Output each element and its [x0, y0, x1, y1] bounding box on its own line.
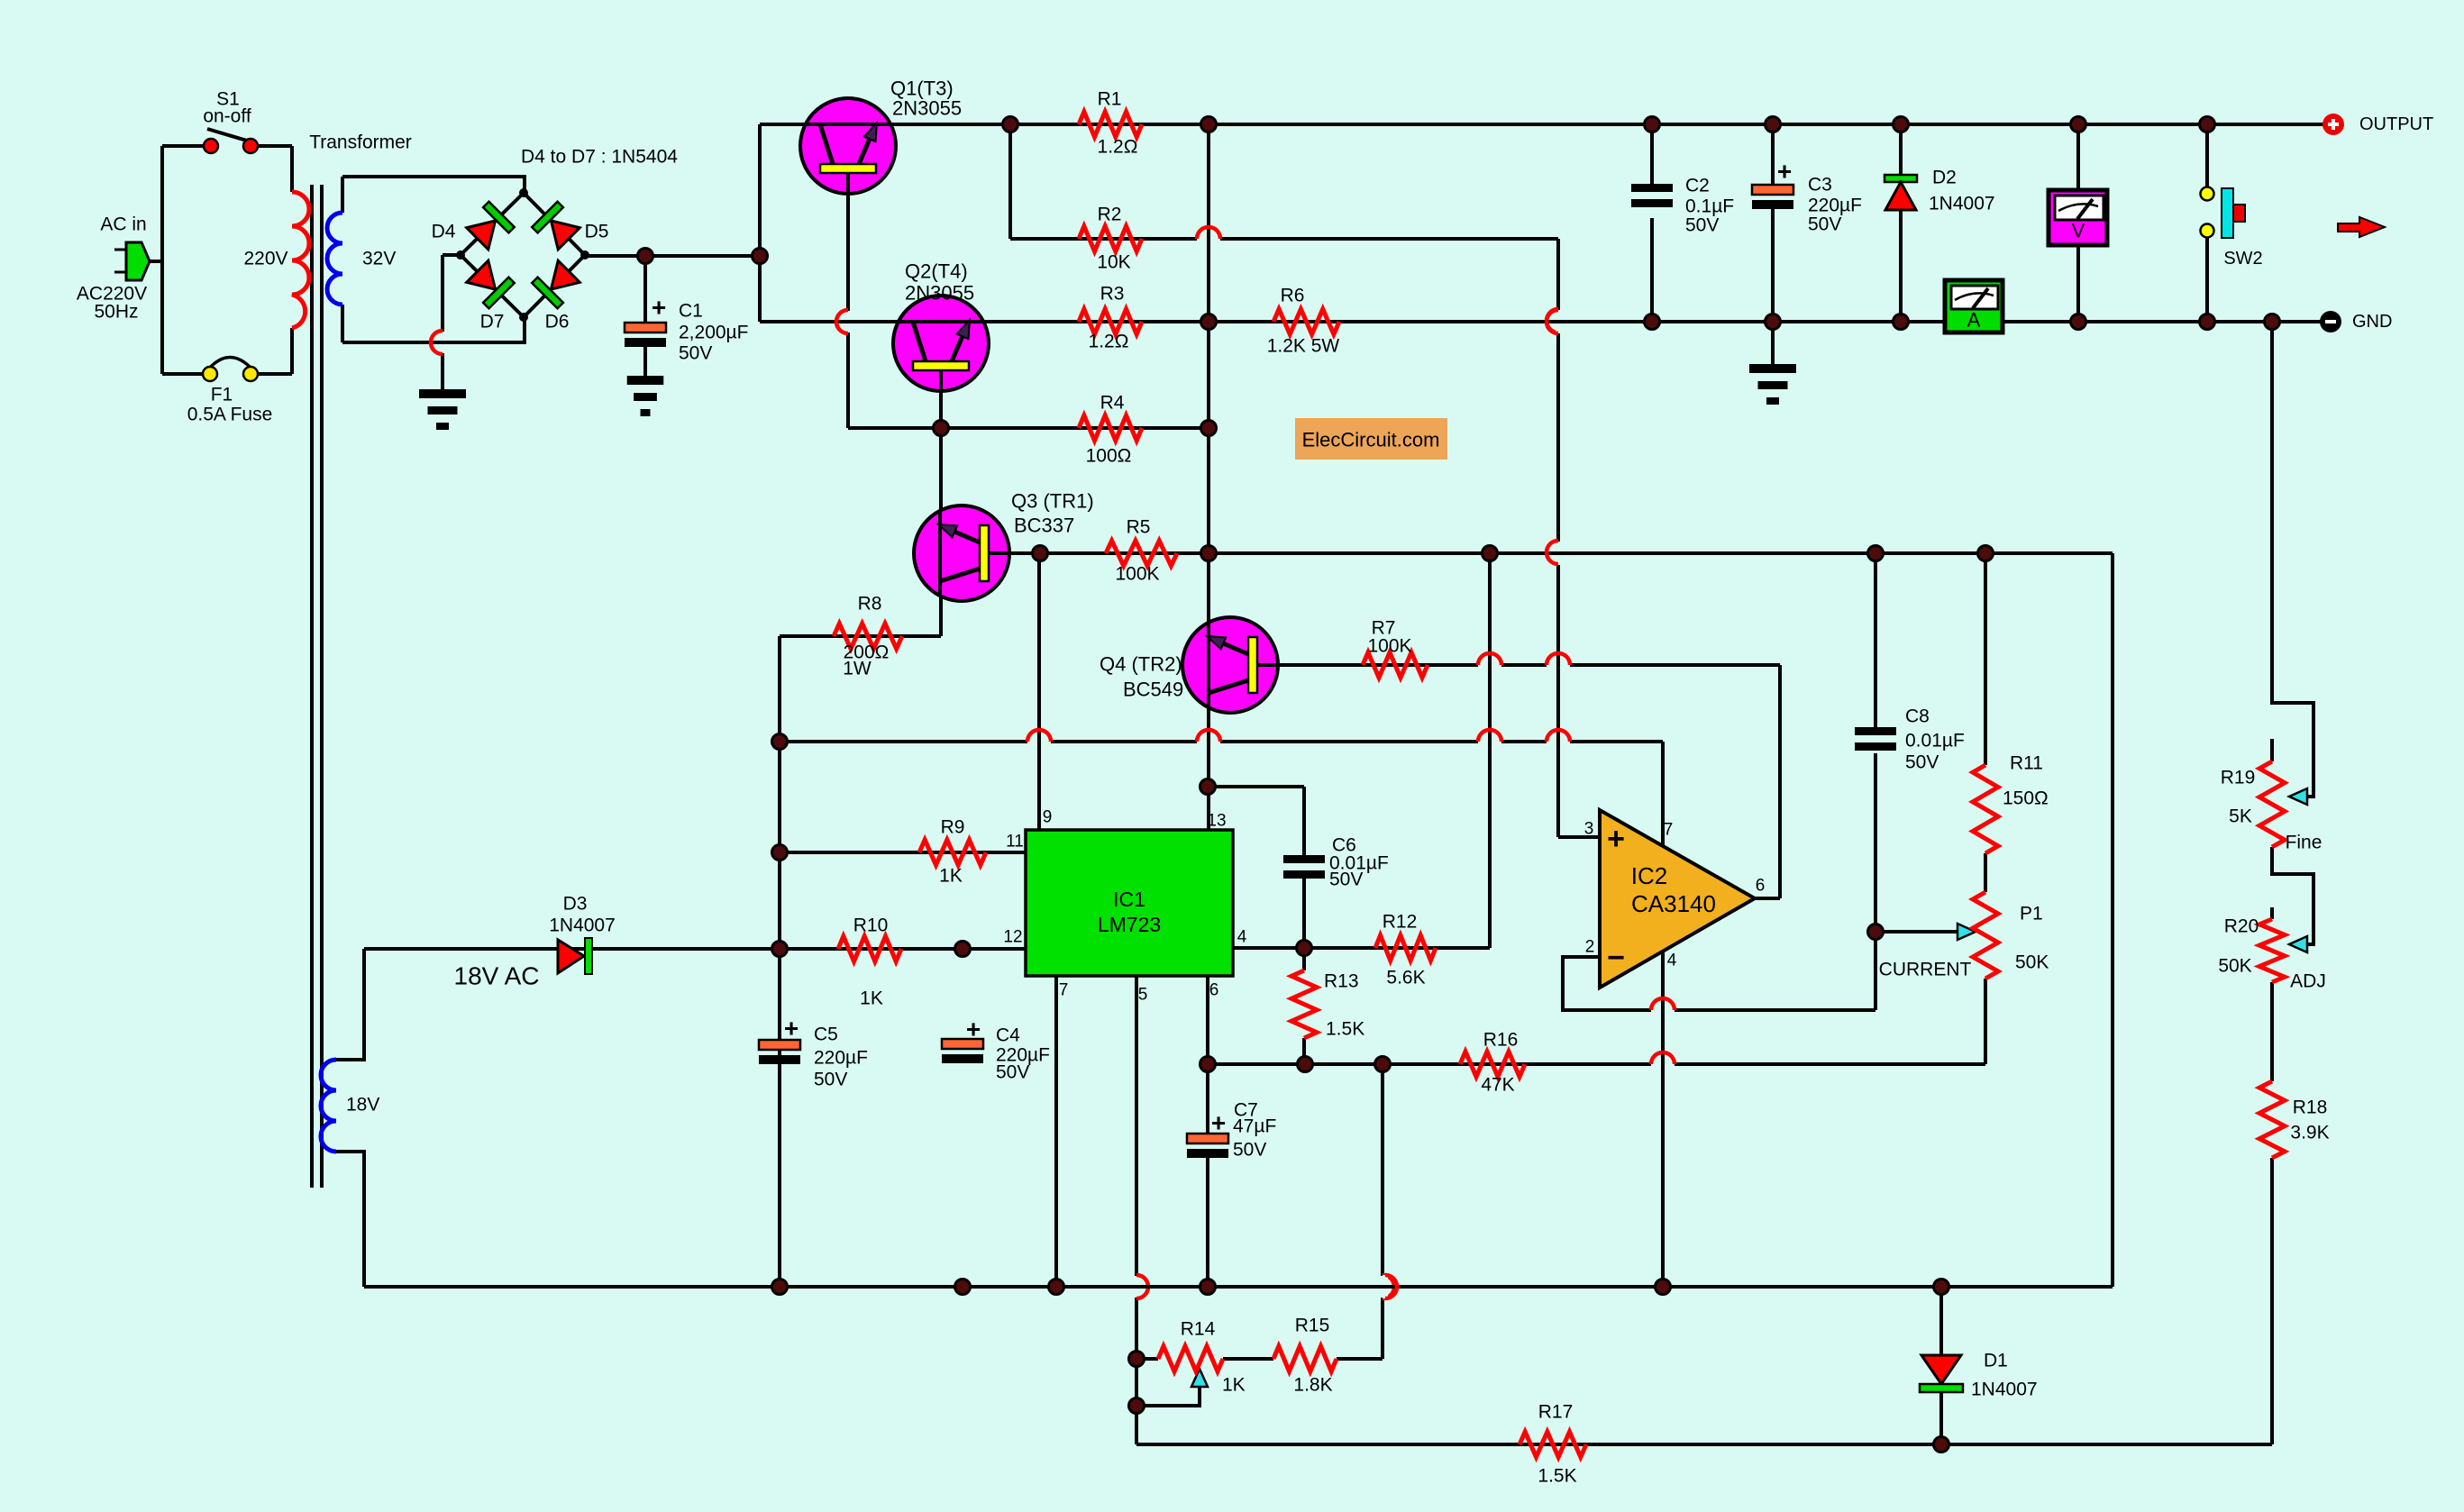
svg-text:R14: R14 [1181, 1319, 1216, 1340]
svg-text:C1: C1 [679, 301, 703, 322]
svg-text:D6: D6 [545, 312, 570, 332]
svg-text:6: 6 [1756, 877, 1766, 896]
svg-text:1.5K: 1.5K [1538, 1466, 1576, 1487]
svg-text:R9: R9 [941, 817, 965, 838]
svg-text:R10: R10 [853, 915, 889, 936]
svg-text:D4 to D7 : 1N5404: D4 to D7 : 1N5404 [521, 147, 678, 168]
svg-text:220µF: 220µF [814, 1048, 868, 1069]
svg-text:R13: R13 [1324, 971, 1359, 992]
svg-text:50V: 50V [1808, 214, 1841, 235]
svg-text:D7: D7 [480, 312, 505, 332]
svg-text:R16: R16 [1483, 1030, 1519, 1051]
svg-text:on-off: on-off [203, 106, 251, 127]
svg-text:2,200µF: 2,200µF [679, 323, 748, 343]
svg-text:2N3055: 2N3055 [892, 97, 962, 120]
svg-text:9: 9 [1043, 808, 1053, 827]
svg-text:−: − [1607, 941, 1625, 975]
svg-text:1N4007: 1N4007 [549, 915, 616, 936]
svg-text:CURRENT: CURRENT [1879, 960, 1972, 980]
svg-text:R3: R3 [1100, 284, 1125, 305]
svg-text:Q2(T4): Q2(T4) [905, 260, 968, 283]
svg-text:12: 12 [1003, 928, 1022, 947]
svg-text:3.9K: 3.9K [2290, 1123, 2329, 1143]
svg-text:F1: F1 [211, 385, 233, 405]
svg-text:1K: 1K [939, 866, 963, 887]
svg-text:Q4 (TR2): Q4 (TR2) [1100, 653, 1182, 676]
svg-text:C5: C5 [814, 1025, 838, 1045]
svg-text:150Ω: 150Ω [2003, 788, 2049, 809]
svg-text:BC337: BC337 [1014, 515, 1074, 537]
svg-text:32V: 32V [362, 249, 396, 269]
svg-text:2: 2 [1585, 938, 1595, 957]
svg-text:100K: 100K [1367, 636, 1411, 657]
svg-text:LM723: LM723 [1098, 913, 1161, 936]
svg-text:50V: 50V [814, 1070, 847, 1090]
svg-text:50V: 50V [1685, 215, 1719, 236]
svg-text:R20: R20 [2224, 916, 2259, 937]
svg-text:Transformer: Transformer [309, 132, 412, 153]
svg-text:R2: R2 [1098, 205, 1122, 225]
svg-text:C8: C8 [1905, 706, 1930, 727]
svg-text:OUTPUT: OUTPUT [2359, 114, 2433, 134]
svg-text:GND: GND [2352, 312, 2392, 332]
svg-text:R11: R11 [2010, 753, 2043, 774]
svg-text:R12: R12 [1383, 912, 1418, 933]
svg-text:3: 3 [1584, 820, 1594, 839]
svg-text:D4: D4 [432, 222, 456, 242]
svg-text:0.01µF: 0.01µF [1905, 731, 1965, 751]
svg-text:D1: D1 [1984, 1351, 2008, 1371]
svg-text:+: + [1211, 1109, 1226, 1137]
svg-text:+: + [784, 1015, 799, 1043]
svg-text:50V: 50V [1329, 870, 1363, 890]
svg-text:5: 5 [1138, 986, 1148, 1005]
svg-text:+: + [1607, 822, 1625, 856]
svg-text:D5: D5 [585, 222, 609, 242]
svg-text:18V AC: 18V AC [454, 962, 540, 990]
svg-text:1K: 1K [1222, 1375, 1246, 1396]
svg-text:1.8K: 1.8K [1293, 1375, 1332, 1396]
svg-text:P1: P1 [2020, 904, 2043, 925]
svg-text:R18: R18 [2293, 1098, 2328, 1118]
svg-text:50Hz: 50Hz [94, 302, 138, 323]
svg-text:Q3 (TR1): Q3 (TR1) [1011, 490, 1094, 513]
svg-text:50K: 50K [2015, 952, 2049, 973]
svg-text:R8: R8 [858, 594, 882, 615]
svg-text:IC2: IC2 [1631, 862, 1667, 889]
svg-text:5.6K: 5.6K [1386, 968, 1425, 988]
svg-text:+: + [652, 294, 666, 322]
svg-text:R1: R1 [1098, 89, 1122, 110]
svg-text:47µF: 47µF [1233, 1116, 1276, 1137]
svg-text:1N4007: 1N4007 [1971, 1380, 2038, 1400]
svg-text:1.2K 5W: 1.2K 5W [1267, 336, 1340, 357]
svg-text:220µF: 220µF [1808, 196, 1862, 216]
svg-text:47K: 47K [1481, 1075, 1514, 1096]
svg-text:10K: 10K [1097, 252, 1130, 273]
svg-text:0.5A Fuse: 0.5A Fuse [187, 405, 273, 425]
svg-text:1N4007: 1N4007 [1929, 194, 1995, 214]
svg-text:1K: 1K [860, 988, 883, 1009]
svg-text:220V: 220V [243, 249, 287, 269]
svg-text:100K: 100K [1115, 564, 1159, 585]
svg-text:D2: D2 [1932, 168, 1957, 188]
svg-text:R19: R19 [2221, 768, 2256, 788]
svg-text:50V: 50V [1233, 1140, 1266, 1161]
svg-text:C2: C2 [1685, 176, 1710, 196]
svg-text:R6: R6 [1281, 286, 1305, 306]
svg-text:4: 4 [1237, 928, 1247, 947]
svg-text:5K: 5K [2229, 806, 2252, 827]
svg-text:ElecCircuit.com: ElecCircuit.com [1302, 429, 1440, 451]
svg-text:Fine: Fine [2286, 833, 2323, 853]
svg-text:R15: R15 [1295, 1316, 1330, 1336]
svg-text:+: + [1777, 158, 1792, 186]
svg-text:C3: C3 [1808, 175, 1832, 196]
svg-text:7: 7 [1059, 981, 1069, 1000]
svg-text:4: 4 [1667, 952, 1677, 970]
svg-text:ADJ: ADJ [2290, 971, 2326, 992]
svg-text:50V: 50V [1905, 752, 1939, 773]
svg-text:AC in: AC in [100, 214, 146, 235]
svg-text:1.2Ω: 1.2Ω [1098, 137, 1138, 158]
svg-text:6: 6 [1209, 981, 1219, 1000]
svg-text:50V: 50V [996, 1062, 1029, 1083]
svg-text:11: 11 [1006, 833, 1024, 852]
svg-text:+: + [966, 1016, 981, 1043]
svg-text:R4: R4 [1100, 393, 1125, 414]
svg-text:100Ω: 100Ω [1086, 446, 1132, 467]
svg-text:CA3140: CA3140 [1631, 890, 1716, 917]
svg-text:D3: D3 [563, 894, 588, 915]
svg-text:0.1µF: 0.1µF [1685, 196, 1734, 217]
svg-text:SW2: SW2 [2223, 249, 2262, 269]
svg-text:50K: 50K [2218, 956, 2251, 977]
svg-text:1.2Ω: 1.2Ω [1089, 332, 1129, 352]
svg-text:A: A [1967, 309, 1981, 332]
svg-text:IC1: IC1 [1113, 888, 1145, 911]
svg-text:13: 13 [1207, 812, 1226, 831]
svg-text:1.5K: 1.5K [1326, 1019, 1364, 1040]
svg-text:R5: R5 [1127, 517, 1151, 538]
svg-text:2N3055: 2N3055 [905, 282, 974, 305]
svg-text:C4: C4 [996, 1025, 1020, 1046]
svg-text:1W: 1W [843, 659, 872, 679]
svg-text:V: V [2072, 220, 2085, 242]
svg-text:50V: 50V [679, 343, 712, 364]
svg-text:BC549: BC549 [1123, 679, 1183, 701]
svg-text:R17: R17 [1538, 1402, 1574, 1423]
svg-text:7: 7 [1664, 821, 1674, 840]
svg-text:18V: 18V [346, 1095, 379, 1116]
